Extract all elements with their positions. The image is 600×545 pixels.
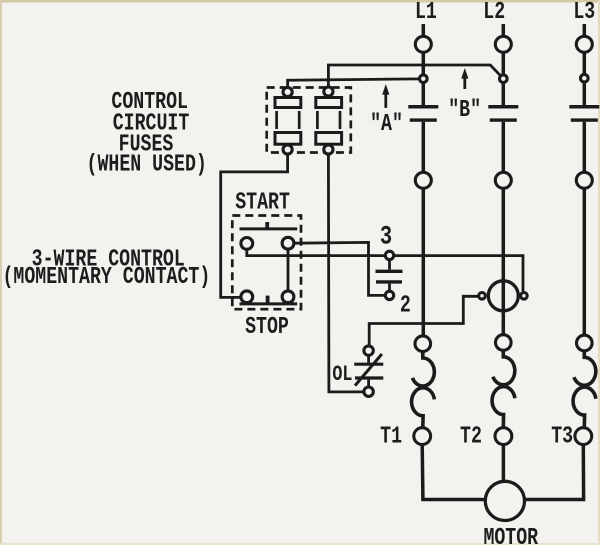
arrow A head xyxy=(382,84,389,95)
OL contact slash xyxy=(355,354,382,386)
wire start left to node 3 and coil (line B) xyxy=(247,249,523,292)
OL contact stub upper xyxy=(367,355,370,362)
terminal T3 xyxy=(575,428,592,445)
wire L2 fuse to contact xyxy=(502,122,506,173)
svg-text:2: 2 xyxy=(400,292,411,319)
wire T2 to motor xyxy=(502,445,506,482)
wire T3 to motor xyxy=(524,445,583,500)
OL contact bottom terminal xyxy=(364,387,373,396)
heater OL1 top terminal xyxy=(415,336,431,352)
fuse F1 body side left xyxy=(275,111,278,129)
terminal L2 xyxy=(495,36,511,52)
holding contact stub lower xyxy=(388,284,391,292)
label 3 xyxy=(380,222,392,252)
wire L1 down to heater xyxy=(422,188,426,336)
holding contact stub upper xyxy=(388,260,391,270)
fuse F1 bottom terminal xyxy=(283,145,292,154)
heater OL2 element xyxy=(492,350,515,427)
wire control tap B to L2 junction xyxy=(328,65,501,87)
fuse F1 body side right xyxy=(298,111,301,129)
label STOP xyxy=(245,314,289,341)
node 3 xyxy=(385,251,393,259)
label (MOMENTARY CONTACT) xyxy=(3,264,211,291)
fuse bar lower L1 xyxy=(410,118,437,121)
wire L2 junction to fuse xyxy=(502,82,506,105)
arrow B shaft xyxy=(463,78,466,90)
fuse bar upper L2 xyxy=(488,105,518,109)
label L3 xyxy=(573,0,595,26)
start contact left xyxy=(241,238,253,250)
label MOTOR xyxy=(483,525,538,545)
coil right terminal xyxy=(521,293,528,300)
svg-text:"B": "B" xyxy=(448,97,481,124)
wire L3 top stub xyxy=(583,24,587,37)
wire fuse F1 to stop button xyxy=(221,154,288,297)
coil M xyxy=(488,281,518,311)
arrow B head xyxy=(461,68,468,79)
stop button plunger xyxy=(266,296,270,304)
label 3-WIRE CONTROL xyxy=(32,246,185,273)
terminal T1 xyxy=(414,428,431,445)
svg-text:(MOMENTARY CONTACT): (MOMENTARY CONTACT) xyxy=(3,264,211,291)
OL contact bar upper xyxy=(354,363,383,366)
heater OL2 top terminal xyxy=(496,335,512,351)
label "A" xyxy=(370,111,403,138)
wire coil to OL contact xyxy=(369,296,479,345)
wire L3 junction to fuse xyxy=(583,82,587,105)
wire L3 to junction xyxy=(583,52,587,75)
terminal L2 contact xyxy=(495,172,511,188)
stop button bar xyxy=(240,302,298,305)
heater OL3 element xyxy=(573,351,596,428)
fuse F1 lower ferrule xyxy=(275,133,301,145)
holding contact bar upper xyxy=(376,270,403,273)
label CONTROL CIRCUIT FUSES (WHEN USED) xyxy=(111,89,188,116)
fuse F2 top terminal xyxy=(324,87,333,96)
wire L3 down to heater xyxy=(583,188,587,335)
wire L2 to junction xyxy=(502,52,506,75)
start button plunger xyxy=(265,222,269,229)
wire L2 down through coil to heater xyxy=(502,188,506,335)
label "B" xyxy=(448,97,481,124)
terminal L3 xyxy=(576,36,592,52)
wire stop NC to start NO (seal-in riser) xyxy=(287,249,290,291)
svg-text:MOTOR: MOTOR xyxy=(483,525,538,545)
stop contact left xyxy=(241,291,253,303)
label T1 xyxy=(380,423,402,450)
wire control tap A to L1 junction xyxy=(288,79,420,88)
fuse F2 upper ferrule xyxy=(316,98,342,108)
label T2 xyxy=(460,423,482,450)
pushbutton enclosure (dashed) xyxy=(232,216,301,310)
svg-text:T2: T2 xyxy=(460,423,482,450)
svg-text:"A": "A" xyxy=(370,111,403,138)
svg-text:L2: L2 xyxy=(483,0,505,26)
svg-text:OL: OL xyxy=(332,362,352,387)
fuse bar lower L3 xyxy=(571,118,598,121)
OL contact bar lower xyxy=(355,376,383,379)
wire L1 fuse to contact xyxy=(422,122,426,173)
fuse bar lower L2 xyxy=(490,118,517,121)
node L2 junction xyxy=(500,75,508,83)
OL contact top terminal xyxy=(364,346,373,355)
holding contact bar lower xyxy=(376,280,402,283)
heater OL3 top terminal xyxy=(577,335,593,351)
label OL xyxy=(332,362,352,387)
wire L3 fuse to contact xyxy=(583,122,587,173)
node 2 xyxy=(385,291,393,299)
coil left terminal xyxy=(479,293,486,300)
svg-text:L3: L3 xyxy=(573,0,595,26)
wire T1 to motor xyxy=(422,445,485,500)
OL contact stub lower xyxy=(367,380,370,387)
svg-text:T1: T1 xyxy=(380,423,402,450)
fuse F2 body side left xyxy=(316,111,319,129)
node L3 junction xyxy=(581,74,589,82)
wire L1 top stub xyxy=(422,24,426,37)
label L1 xyxy=(415,0,437,26)
fuse F2 bottom terminal xyxy=(324,145,333,154)
svg-text:START: START xyxy=(235,189,290,216)
label T3 xyxy=(551,423,573,450)
fuse bar upper L3 xyxy=(569,105,599,109)
label 2 xyxy=(400,292,411,319)
terminal L3 contact xyxy=(576,172,592,188)
start contact right xyxy=(282,237,294,249)
label START xyxy=(235,189,290,216)
node L1 junction xyxy=(420,75,428,83)
terminal L1 xyxy=(415,36,431,52)
wire L2 top stub xyxy=(502,24,506,37)
control fuse enclosure (dashed) xyxy=(267,88,351,153)
svg-text:T3: T3 xyxy=(551,423,573,450)
arrow A shaft xyxy=(384,93,387,108)
svg-text:3: 3 xyxy=(380,222,392,252)
svg-text:STOP: STOP xyxy=(245,314,289,341)
terminal T2 xyxy=(495,428,512,445)
wire fuse F2 down to OL xyxy=(328,154,363,392)
fuse F1 upper ferrule xyxy=(275,98,301,108)
fuse F2 body side right xyxy=(339,111,342,129)
label L2 xyxy=(483,0,505,26)
svg-text:L1: L1 xyxy=(415,0,437,26)
fuse F2 lower ferrule xyxy=(316,133,342,145)
heater OL1 element xyxy=(412,352,435,429)
motor xyxy=(485,481,524,520)
wire L1 junction to fuse xyxy=(422,82,426,105)
wire start right to node 2 (line A) xyxy=(294,242,385,295)
wire L1 to junction xyxy=(422,52,426,75)
terminal L1 contact xyxy=(415,172,431,188)
start button bar xyxy=(240,227,298,230)
fuse bar upper L1 xyxy=(408,105,438,109)
svg-text:(WHEN USED): (WHEN USED) xyxy=(87,151,207,178)
stop contact right xyxy=(282,291,294,303)
fuse F1 top terminal xyxy=(283,87,292,96)
